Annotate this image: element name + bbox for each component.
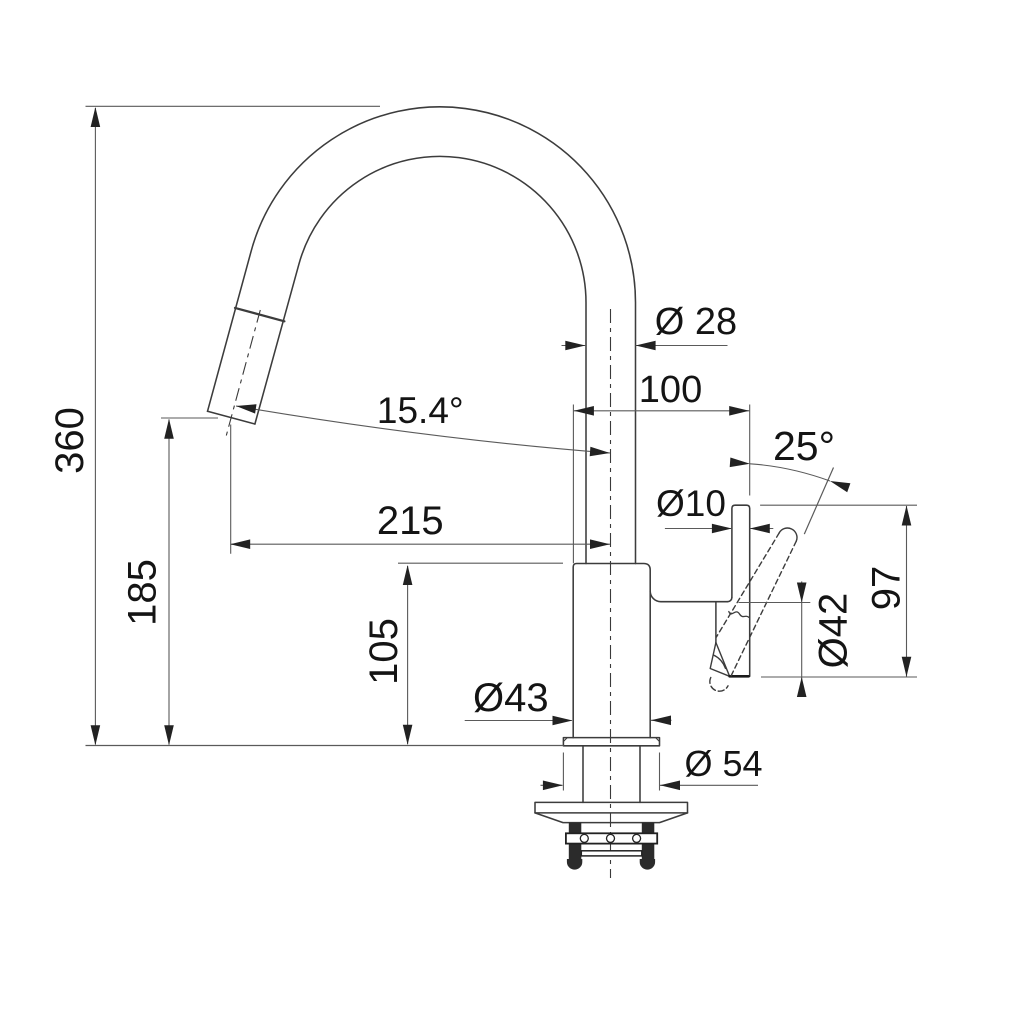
trim flange chamfers [563, 738, 659, 742]
phantom tilted handle (25 deg) [710, 528, 797, 691]
bracket lower lip [581, 851, 642, 856]
dim 185 [120, 418, 218, 745]
svg-text:360: 360 [48, 407, 92, 474]
threaded studs [569, 823, 582, 861]
bracket holes [580, 834, 588, 842]
stud end caps [567, 859, 582, 870]
svg-text:Ø42: Ø42 [811, 593, 855, 669]
angle dim 25 [730, 423, 851, 492]
svg-text:97: 97 [864, 566, 908, 611]
deck trim flange [563, 738, 659, 746]
dim O42 [739, 581, 856, 697]
break squiggle [729, 612, 749, 618]
svg-text:185: 185 [120, 559, 164, 626]
svg-text:15.4°: 15.4° [377, 390, 464, 431]
dim 360 [48, 107, 100, 745]
dim 105 [362, 563, 563, 745]
svg-text:Ø10: Ø10 [656, 483, 726, 524]
dim 360 extension top line [86, 105, 381, 107]
dim O10 [656, 483, 773, 533]
shank tube [583, 746, 640, 803]
svg-text:100: 100 [639, 369, 702, 411]
dim 215 [230, 425, 610, 554]
spout inner profile [255, 156, 586, 563]
svg-text:Ø43: Ø43 [473, 676, 549, 720]
svg-text:Ø 28: Ø 28 [655, 301, 737, 343]
lever fillet [728, 597, 732, 601]
column centerline [610, 309, 612, 878]
mounting bracket bar [566, 833, 657, 843]
dim O43 [465, 676, 672, 725]
mounting flange [535, 802, 688, 813]
svg-text:25°: 25° [773, 423, 835, 469]
dim 100 [573, 369, 749, 563]
lever handle upright [732, 505, 750, 676]
body outline [573, 564, 650, 738]
svg-text:215: 215 [377, 499, 444, 543]
side arm bottom edge [650, 591, 727, 602]
spray head joint line [235, 308, 284, 321]
angle dim 15.4 [236, 390, 610, 456]
connector socket under lever [715, 602, 717, 643]
connector dark base [730, 675, 749, 678]
dim O28 [562, 301, 738, 350]
svg-text:Ø 54: Ø 54 [684, 743, 762, 784]
spray head axis centerline [226, 310, 260, 437]
spout outer profile [208, 107, 636, 564]
dim O54 [541, 743, 763, 791]
spray head outlet face [208, 411, 255, 424]
counter baseline [86, 745, 564, 747]
handle axis leg line [804, 468, 833, 535]
dim 97 [760, 505, 917, 677]
svg-text:105: 105 [362, 618, 406, 685]
